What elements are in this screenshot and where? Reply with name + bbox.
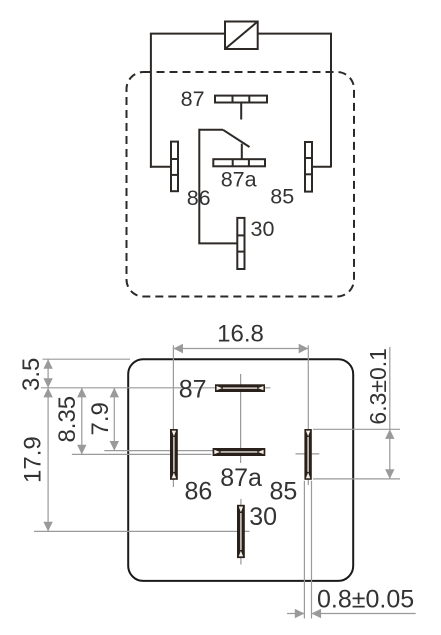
- arrow 16.8 right: [299, 344, 309, 353]
- dimension 8.35 line: [81, 388, 83, 455]
- dimension 3.5 line: [47, 359, 49, 388]
- svg-text:87: 87: [181, 87, 205, 111]
- extension line pin 86 center vertical: [172, 345, 174, 487]
- pin 30 blade: [237, 505, 245, 558]
- wire left coil riser: [150, 34, 152, 168]
- wire common down: [198, 129, 200, 244]
- svg-text:86: 86: [187, 186, 211, 210]
- svg-text:8.35: 8.35: [54, 396, 81, 443]
- extension line pin 85 top: [313, 428, 400, 430]
- extension line pin 30 center vertical: [240, 499, 242, 565]
- svg-text:85: 85: [270, 478, 298, 506]
- relay body dashed outline: [127, 72, 355, 297]
- arrow 8.35 up: [77, 388, 86, 398]
- svg-text:17.9: 17.9: [20, 436, 47, 483]
- wire pin 87 stem (NO contact): [240, 103, 242, 120]
- svg-text:30: 30: [249, 503, 277, 531]
- svg-text:0.8±0.05: 0.8±0.05: [317, 586, 414, 614]
- extension line pin 87 center: [41, 387, 271, 389]
- pin 87 blade: [215, 384, 265, 392]
- arrow 3.5 down: [43, 378, 52, 388]
- arrow 7.9 up: [110, 388, 119, 398]
- dimension 7.9 line: [113, 388, 115, 451]
- extension line pin thickness left: [303, 481, 305, 619]
- relay base outline: [128, 359, 353, 581]
- arrow 3.5 up: [43, 359, 52, 369]
- dimension 16.8 line: [173, 348, 308, 350]
- pin 85 terminal: [305, 142, 312, 192]
- arrow 0.8 left: [295, 609, 305, 618]
- dimension arrowheads: [43, 344, 394, 618]
- svg-text:87a: 87a: [221, 167, 257, 191]
- arrow 6.3 down: [385, 469, 394, 479]
- extension line pin 85 bottom: [313, 478, 400, 480]
- pin 86 blade: [170, 429, 178, 480]
- dimension 0.8 line left: [287, 613, 304, 615]
- arrow 6.3 up: [385, 429, 394, 439]
- arrow 0.8 right: [312, 609, 322, 618]
- wire to pin 86: [150, 166, 171, 168]
- arrow 16.8 left: [173, 344, 183, 353]
- dimension 6.3 line: [389, 347, 391, 479]
- svg-text:16.8: 16.8: [217, 321, 264, 348]
- extension line box top: [43, 358, 131, 360]
- extension line pin 30 center horizontal: [34, 530, 250, 532]
- svg-text:7.9: 7.9: [87, 402, 114, 435]
- extension line pin 85 center short: [296, 453, 320, 455]
- wire to pin 85: [312, 166, 331, 168]
- extension line pin 85 center vertical: [307, 345, 309, 485]
- pin 87a blade: [213, 448, 266, 456]
- extension line pin thickness right: [311, 481, 313, 619]
- arrow 8.35 down: [77, 445, 86, 455]
- svg-text:6.3±0.1: 6.3±0.1: [365, 348, 391, 425]
- wire right coil riser: [330, 34, 332, 168]
- dimension 17.9 line: [47, 388, 49, 532]
- svg-text:86: 86: [185, 478, 213, 506]
- pin 87 terminal: [215, 96, 267, 103]
- switch arm: [223, 130, 250, 147]
- svg-text:87a: 87a: [220, 464, 262, 492]
- pin 86 terminal: [171, 142, 178, 192]
- extension line pins 87-87a center vertical: [240, 374, 242, 463]
- arrow 17.9 down: [43, 522, 52, 532]
- svg-text:30: 30: [251, 217, 275, 241]
- wire to pin 30: [198, 242, 237, 244]
- svg-text:85: 85: [270, 184, 294, 208]
- wire pin 87a stem (NC contact): [241, 144, 243, 160]
- pin 87a terminal: [213, 159, 265, 166]
- svg-text:3.5: 3.5: [18, 358, 45, 391]
- extension line 87a center: [104, 450, 265, 452]
- dimension 0.8 line right: [312, 613, 416, 615]
- pin 85 blade: [304, 429, 311, 480]
- wire coil to top right: [258, 33, 332, 35]
- extension line pins 86-85 center: [72, 453, 212, 455]
- arrow 7.9 down: [110, 441, 119, 451]
- coil K1: [225, 22, 258, 50]
- pin 30 terminal: [237, 218, 244, 269]
- svg-text:87: 87: [179, 375, 207, 403]
- arrow 17.9 up: [43, 388, 52, 398]
- wire arm pivot: [199, 129, 223, 131]
- wire top left to coil: [150, 33, 225, 35]
